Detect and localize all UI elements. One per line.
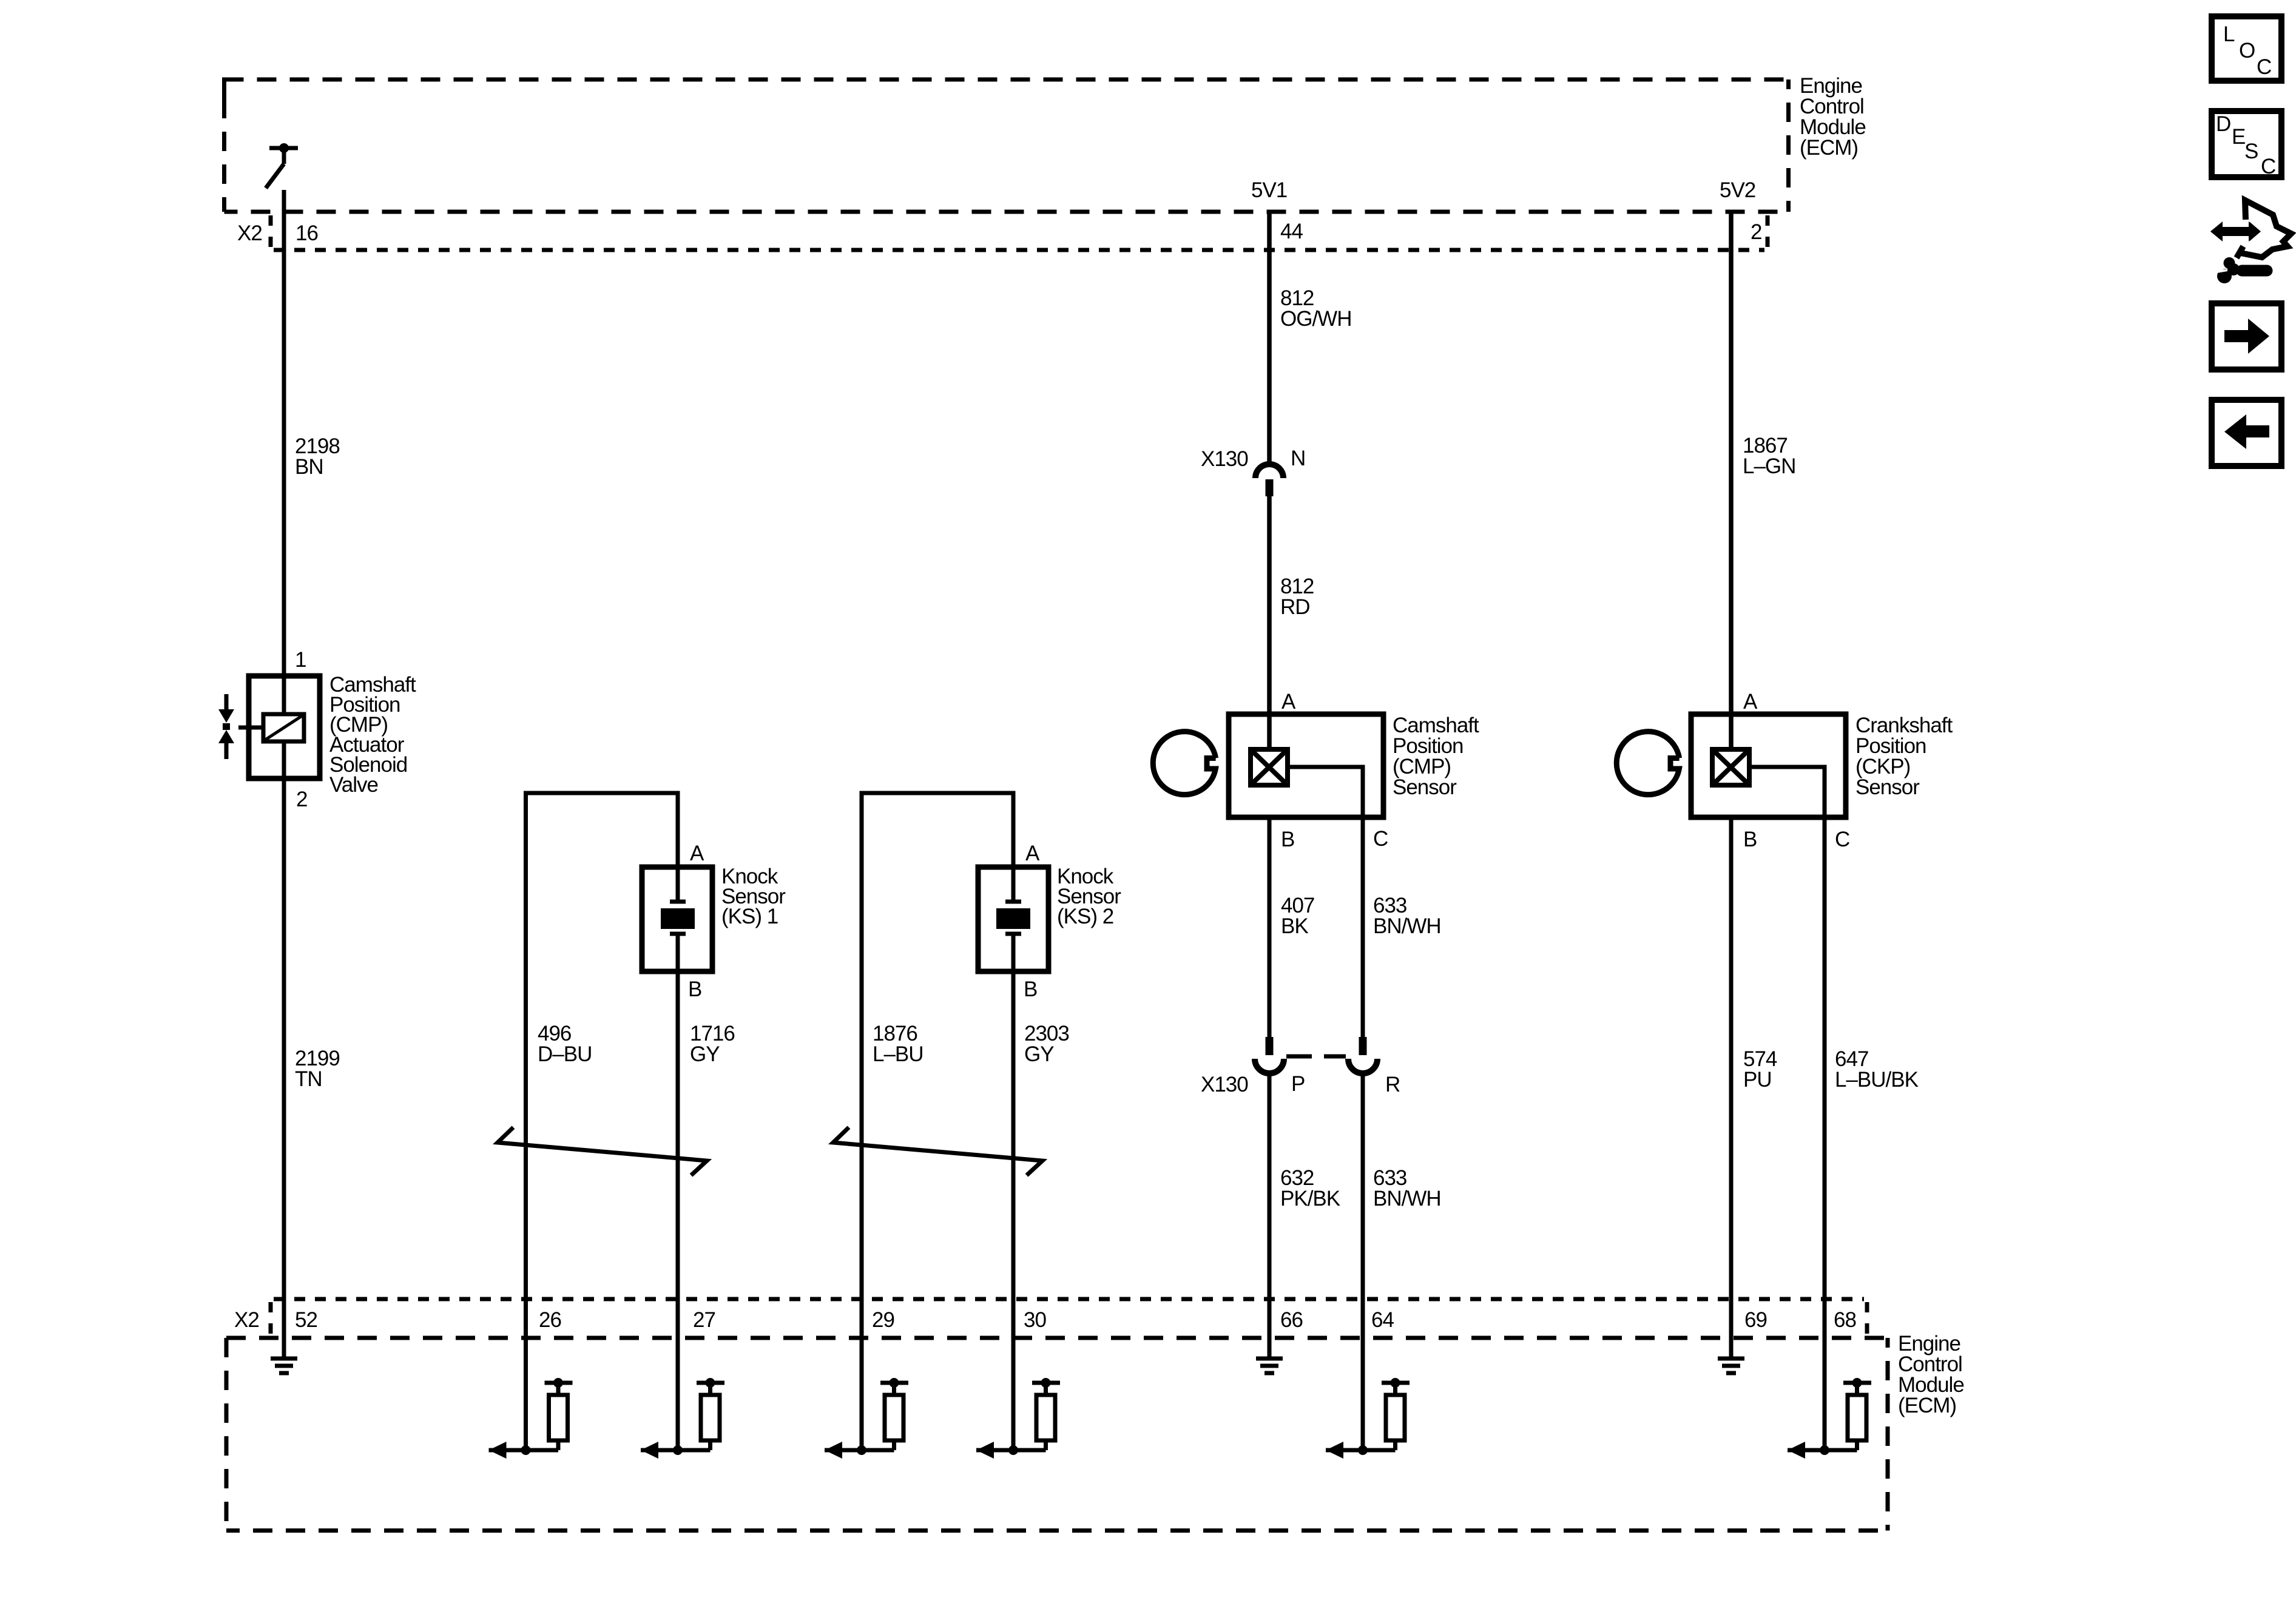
wire 5V1 (ECM 44 to X130 N) (1267, 212, 1272, 465)
KS2 label (1057, 865, 1121, 928)
svg-text:Sensor: Sensor (1855, 775, 1920, 799)
svg-text:X2: X2 (234, 1308, 259, 1332)
svg-text:L–GN: L–GN (1743, 454, 1795, 478)
X2 connector strip (bottom) (271, 1299, 1867, 1338)
switch inside ECM (CMP actuator control) (266, 148, 298, 188)
knock sensor KS2 box (978, 867, 1048, 971)
icon LOC box (2212, 16, 2281, 81)
inline connector X130 N (1255, 464, 1283, 496)
CMP actuator solenoid valve V1 (238, 676, 320, 778)
wire 5V2 (ECM 2 to CKP sensor A) (1729, 212, 1734, 747)
wire 1716 GY (KS1 B to ECM 27) (676, 971, 680, 1450)
svg-text:2: 2 (296, 788, 307, 811)
twisted pair symbol KS2 (833, 1127, 1042, 1175)
svg-text:30: 30 (1024, 1308, 1046, 1332)
svg-text:A: A (690, 842, 704, 865)
svg-text:16: 16 (295, 221, 318, 245)
svg-text:A: A (1743, 690, 1758, 714)
wire 407 BK (CMP B to X130 P) (1268, 817, 1272, 1037)
svg-text:C: C (1373, 827, 1388, 851)
svg-text:BK: BK (1281, 914, 1308, 938)
svg-text:1: 1 (295, 648, 306, 672)
wire 812 RD (X130 N to CMP sensor A) (1267, 496, 1272, 747)
inline connector X130 P (1255, 1037, 1284, 1073)
knock sensor 2 wiring (pin A loop) (862, 793, 1013, 1450)
svg-text:(ECM): (ECM) (1898, 1394, 1956, 1417)
icon hand with double arrow and wrench (2210, 200, 2291, 283)
internal pullup + arrow (pin 64) (1326, 1378, 1410, 1459)
svg-text:BN: BN (295, 455, 323, 479)
svg-text:P: P (1291, 1072, 1305, 1096)
ground (pin 52) (271, 1359, 297, 1373)
svg-text:D: D (2216, 112, 2230, 136)
svg-text:X130: X130 (1201, 1073, 1248, 1096)
svg-text:GY: GY (690, 1042, 720, 1066)
svg-text:26: 26 (539, 1308, 561, 1332)
icon DESC box (2212, 111, 2281, 178)
KS1 label (721, 865, 786, 928)
twisted pair symbol KS1 (498, 1127, 707, 1175)
svg-text:L–BU: L–BU (873, 1042, 923, 1066)
svg-text:(ECM): (ECM) (1800, 136, 1858, 160)
svg-text:D–BU: D–BU (538, 1042, 592, 1066)
inline connector X130 R (1348, 1037, 1377, 1073)
CKP internal output wire (1752, 767, 1825, 817)
internal pullup + arrow (pin 27) (641, 1378, 724, 1459)
wire 2303 GY (KS2 B to ECM 30) (1011, 971, 1016, 1450)
KS2 piezo element (996, 867, 1030, 971)
double arrow (2210, 222, 2261, 241)
svg-text:69: 69 (1744, 1308, 1767, 1332)
svg-text:29: 29 (872, 1308, 894, 1332)
CKP reluctor wheel (1616, 732, 1679, 795)
svg-text:E: E (2232, 125, 2245, 149)
KS1 piezo element (661, 867, 695, 971)
svg-text:Sensor: Sensor (1393, 775, 1457, 799)
svg-text:Valve: Valve (329, 773, 378, 797)
svg-text:C: C (2257, 55, 2271, 79)
wire 2198 BN (switch to CMP actuator valve) (282, 190, 286, 714)
wire 647 L-BU/BK (CKP C to ECM 68) (1823, 817, 1827, 1450)
X2 connector strip (top) (271, 215, 1768, 250)
wire 632 PK/BK (X130 P to ECM 66) (1268, 1073, 1272, 1359)
svg-text:5V1: 5V1 (1251, 178, 1287, 202)
svg-text:OG/WH: OG/WH (1280, 307, 1351, 331)
svg-text:PU: PU (1743, 1068, 1772, 1092)
wrench (2242, 265, 2267, 277)
CMP actuator valve label (329, 673, 416, 797)
internal pullup + arrow (pin 29) (825, 1378, 908, 1459)
svg-text:X130: X130 (1201, 447, 1248, 471)
ECM label top right (1800, 74, 1866, 160)
CMP internal output wire (1290, 767, 1363, 817)
svg-text:S: S (2244, 140, 2258, 163)
internal pullup + arrow (pin 26) (489, 1378, 573, 1459)
svg-text:64: 64 (1371, 1308, 1394, 1332)
svg-text:2: 2 (1751, 220, 1761, 244)
svg-text:B: B (1743, 828, 1757, 851)
svg-text:C: C (1835, 828, 1849, 851)
ECM bottom box (dashed) (226, 1338, 1888, 1531)
CKP hall element (box with X) (1712, 749, 1749, 785)
ECM label bottom right (1898, 1332, 1964, 1417)
ground (pin 66) (1256, 1359, 1283, 1373)
svg-text:5V2: 5V2 (1720, 178, 1755, 202)
icon right-arrow box (2212, 303, 2281, 370)
svg-text:C: C (2261, 155, 2275, 178)
svg-text:66: 66 (1280, 1308, 1303, 1332)
internal pullup + arrow (pin 30) (976, 1378, 1060, 1459)
svg-text:44: 44 (1280, 220, 1303, 243)
CMP sensor label (1393, 714, 1479, 799)
svg-text:X2: X2 (237, 221, 262, 245)
svg-text:O: O (2239, 39, 2255, 62)
CMP sensor box U2 (1229, 714, 1383, 817)
icon left-arrow box (2212, 400, 2281, 466)
svg-text:PK/BK: PK/BK (1280, 1187, 1340, 1210)
ground (pin 69) (1718, 1359, 1744, 1373)
svg-text:GY: GY (1024, 1042, 1054, 1066)
knock sensor KS1 box (642, 867, 712, 971)
svg-text:A: A (1281, 690, 1296, 714)
wire 633 BN/WH upper (CMP C to X130 R) (1361, 817, 1365, 1037)
svg-text:TN: TN (295, 1067, 322, 1091)
svg-text:B: B (1281, 828, 1294, 851)
svg-text:68: 68 (1834, 1308, 1856, 1332)
internal pullup + arrow (pin 68) (1788, 1378, 1871, 1459)
CMP hall element (box with X) (1251, 749, 1288, 785)
svg-text:B: B (1024, 977, 1037, 1001)
knock sensor 1 wiring (pin A loop) (526, 793, 678, 1450)
svg-text:52: 52 (295, 1308, 317, 1332)
wire 633 BN/WH lower (X130 R to ECM 64) (1361, 1073, 1365, 1450)
svg-text:(KS) 2: (KS) 2 (1057, 905, 1113, 928)
svg-text:A: A (1025, 842, 1040, 865)
svg-text:RD: RD (1280, 595, 1310, 619)
svg-text:R: R (1385, 1073, 1400, 1096)
ECM top box (dashed) (225, 79, 1789, 212)
svg-text:27: 27 (693, 1308, 715, 1332)
svg-text:(KS) 1: (KS) 1 (721, 905, 778, 928)
svg-text:N: N (1291, 447, 1305, 470)
CKP sensor label (1855, 714, 1953, 799)
svg-text:BN/WH: BN/WH (1373, 1187, 1441, 1210)
valve symbol (two triangles) (218, 694, 234, 759)
svg-text:L–BU/BK: L–BU/BK (1835, 1068, 1919, 1092)
wire 574 PU (CKP B to ECM 69) (1729, 817, 1734, 1359)
hand outline (2241, 200, 2291, 257)
CMP reluctor wheel (1153, 732, 1215, 795)
svg-text:B: B (688, 977, 701, 1001)
CKP sensor box U3 (1691, 714, 1846, 817)
dashed link between P and R (1286, 1055, 1346, 1059)
svg-text:BN/WH: BN/WH (1373, 914, 1441, 938)
wire 2199 TN (valve to ECM pin 52) (282, 778, 286, 1359)
svg-text:L: L (2223, 22, 2235, 46)
